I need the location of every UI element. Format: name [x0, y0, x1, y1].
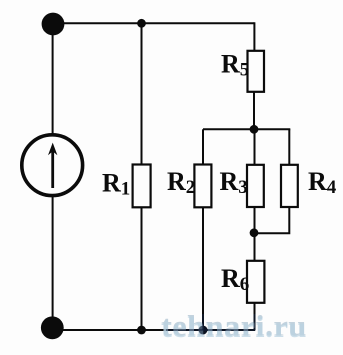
wire left vertical upper	[52, 23, 54, 134]
wire bottom bus	[53, 329, 256, 331]
resistor R2	[167, 165, 211, 208]
resistor R5	[221, 50, 264, 92]
resistor R6	[221, 261, 264, 303]
wire R1 top	[141, 23, 143, 164]
wire bottom bus (seen through watermark)	[166, 329, 255, 331]
resistor R3	[220, 165, 264, 207]
wire R2 bottom	[202, 207, 204, 330]
current source I	[22, 135, 83, 196]
wire left vertical lower	[52, 197, 54, 330]
node junction middle bus	[250, 125, 259, 134]
node terminal top-left	[42, 13, 65, 36]
wire middle bus	[203, 128, 290, 130]
wire R5 to middle bus	[253, 92, 255, 130]
wire R6 bottom	[254, 303, 256, 331]
wire R4 bottom to junction	[255, 207, 290, 234]
watermark tehnari.ru	[161, 309, 307, 344]
wire R1 bottom	[141, 207, 143, 330]
svg-text:tehnari.ru: tehnari.ru	[161, 310, 307, 343]
node junction bottom R1	[137, 326, 146, 335]
wire R3 bottom to junction	[254, 207, 256, 233]
wire R4 top	[288, 129, 290, 165]
wire R6 top	[254, 233, 256, 261]
resistor R4	[281, 165, 337, 207]
wire top bus	[53, 22, 255, 24]
node junction bottom R2 (seen through watermark)	[199, 326, 208, 335]
wire R5 drop from top bus	[253, 22, 255, 51]
resistor R1	[102, 165, 151, 208]
wire R3 top	[254, 129, 256, 165]
wire R6 lower tail (seen through watermark)	[254, 314, 256, 330]
wire R2 top	[202, 129, 204, 164]
node junction R3/R4/R6	[250, 228, 259, 237]
node junction top (R1/top bus)	[137, 19, 146, 28]
wire R2 lower tail (seen through watermark)	[202, 314, 204, 330]
node terminal bottom-left	[41, 316, 64, 339]
node junction bottom R2	[199, 326, 208, 335]
